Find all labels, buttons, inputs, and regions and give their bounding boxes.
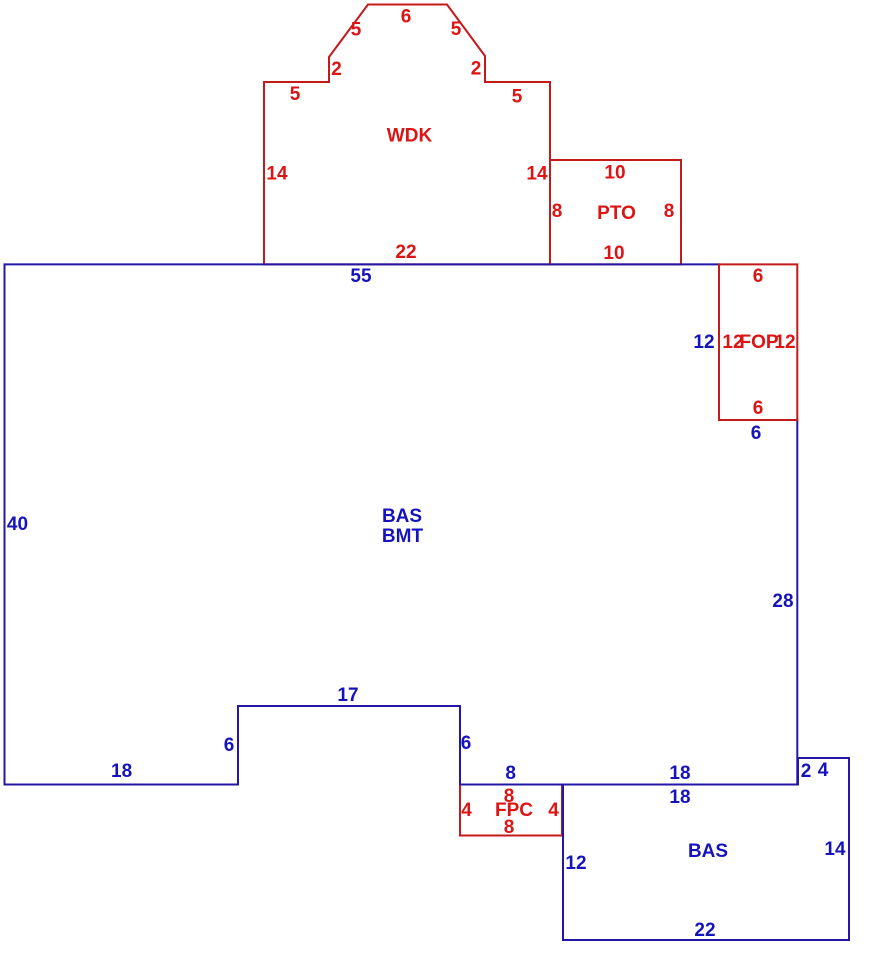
svg-text:2: 2 bbox=[801, 761, 812, 782]
svg-text:22: 22 bbox=[395, 242, 416, 263]
open porch FOP outline bbox=[719, 264, 797, 420]
svg-text:10: 10 bbox=[604, 163, 625, 184]
svg-text:4: 4 bbox=[548, 800, 559, 821]
svg-text:FOP: FOP bbox=[739, 332, 778, 353]
svg-text:17: 17 bbox=[337, 685, 358, 706]
svg-text:6: 6 bbox=[401, 6, 412, 27]
svg-text:55: 55 bbox=[350, 266, 372, 287]
svg-text:6: 6 bbox=[461, 733, 472, 754]
svg-text:12: 12 bbox=[565, 853, 586, 874]
svg-text:6: 6 bbox=[751, 423, 762, 444]
svg-text:12: 12 bbox=[774, 332, 795, 353]
svg-text:28: 28 bbox=[772, 591, 793, 612]
svg-text:18: 18 bbox=[111, 761, 132, 782]
svg-text:BAS: BAS bbox=[382, 506, 422, 527]
svg-text:BMT: BMT bbox=[382, 526, 424, 547]
svg-text:4: 4 bbox=[818, 760, 829, 781]
svg-text:18: 18 bbox=[669, 763, 690, 784]
svg-text:BAS: BAS bbox=[688, 841, 728, 862]
svg-text:8: 8 bbox=[664, 201, 675, 222]
svg-text:12: 12 bbox=[693, 332, 714, 353]
main basement BAS/BMT outline bbox=[5, 264, 798, 784]
svg-text:22: 22 bbox=[694, 920, 715, 941]
svg-text:6: 6 bbox=[753, 398, 764, 419]
svg-text:14: 14 bbox=[526, 164, 548, 185]
svg-text:5: 5 bbox=[351, 20, 362, 41]
svg-text:4: 4 bbox=[461, 800, 472, 821]
svg-text:18: 18 bbox=[669, 787, 690, 808]
svg-text:6: 6 bbox=[224, 735, 235, 756]
covered porch FPC outline bbox=[460, 785, 562, 836]
svg-text:WDK: WDK bbox=[387, 126, 433, 147]
svg-text:5: 5 bbox=[290, 84, 301, 105]
svg-text:6: 6 bbox=[753, 266, 764, 287]
svg-text:14: 14 bbox=[266, 164, 288, 185]
svg-text:10: 10 bbox=[603, 243, 624, 264]
svg-text:5: 5 bbox=[451, 19, 462, 40]
svg-text:2: 2 bbox=[331, 59, 342, 80]
svg-text:8: 8 bbox=[504, 817, 515, 838]
lower basement BAS outline bbox=[563, 758, 849, 940]
svg-text:5: 5 bbox=[512, 87, 523, 108]
wood deck WDK outline bbox=[264, 5, 550, 265]
svg-text:14: 14 bbox=[824, 839, 846, 860]
svg-text:40: 40 bbox=[7, 514, 28, 535]
svg-text:8: 8 bbox=[505, 763, 516, 784]
svg-text:8: 8 bbox=[552, 201, 563, 222]
svg-text:PTO: PTO bbox=[597, 203, 636, 224]
svg-text:2: 2 bbox=[471, 59, 482, 80]
patio PTO outline bbox=[550, 160, 681, 264]
